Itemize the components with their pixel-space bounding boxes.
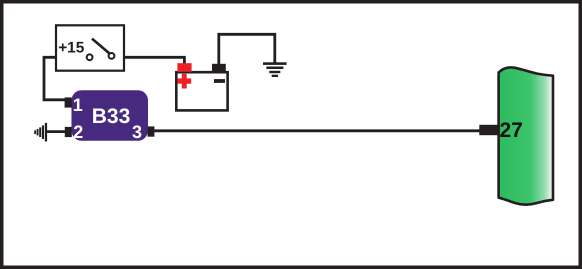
svg-text:2: 2 — [73, 122, 83, 142]
svg-text:B33: B33 — [92, 105, 131, 128]
svg-text:1: 1 — [73, 95, 83, 115]
svg-text:+15: +15 — [58, 39, 85, 56]
svg-text:3: 3 — [132, 122, 142, 142]
svg-text:27: 27 — [500, 119, 523, 142]
